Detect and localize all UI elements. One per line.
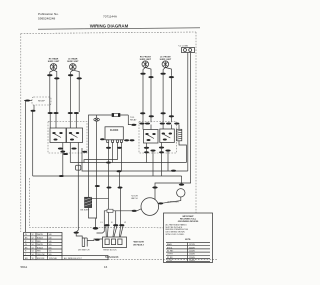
svg-text:2375W: 2375W: [189, 244, 195, 246]
svg-text:SURF. UNIT: SURF. UNIT: [160, 59, 172, 61]
terminal cabinet crossing: [93, 227, 99, 230]
surface unit LF label: [160, 56, 172, 60]
wire RF left down: [142, 75, 144, 123]
bus H2: [82, 148, 188, 171]
clock box: [105, 127, 123, 140]
wire S4 down to H4: [161, 143, 163, 177]
svg-text:CLOCK: CLOCK: [110, 129, 119, 132]
bottom dashed rule: [108, 259, 218, 261]
terminal row above right switches: [139, 122, 179, 124]
terminal receptacle left: [25, 100, 30, 102]
svg-text:140: 140: [49, 241, 52, 243]
wire clock pin3 down: [117, 142, 119, 159]
terminal RR right: [54, 77, 59, 79]
svg-text:ALL WIRE 600 VOLT: ALL WIRE 600 VOLT: [64, 257, 83, 260]
wire pair into block 1: [106, 226, 108, 237]
junction H1 mid: [106, 161, 111, 163]
svg-text:WHITE: WHITE: [37, 244, 44, 246]
bus H4: [33, 175, 182, 177]
svg-text:1250W: 1250W: [189, 257, 195, 259]
wire terminals into switch 2: [70, 114, 76, 128]
motor label: [131, 196, 138, 200]
terminals below left switches: [58, 147, 77, 155]
wire motor lead drop to block: [115, 211, 117, 225]
publication number text: [38, 12, 59, 21]
svg-text:W: W: [25, 244, 27, 246]
terminal LR right: [77, 77, 82, 79]
surface unit RF element: [142, 61, 149, 68]
svg-text:5995240248: 5995240248: [105, 256, 119, 259]
receptacle box left: [32, 97, 51, 105]
svg-text:DR SWITCH: DR SWITCH: [78, 249, 90, 251]
surface unit RR element: [50, 64, 57, 71]
terminal block: [103, 237, 127, 248]
svg-text:12: 12: [32, 234, 34, 236]
terminal RF left: [140, 73, 145, 75]
svg-text:BAKE: BAKE: [167, 243, 173, 246]
console dashed outline right: [139, 122, 177, 154]
wire door switch lead: [76, 234, 82, 238]
surface unit LF element: [162, 61, 169, 68]
svg-text:5995240248: 5995240248: [38, 17, 55, 21]
svg-text:SURF. UNIT: SURF. UNIT: [140, 59, 152, 61]
connector P1: [182, 48, 195, 53]
wire receptacle down: [33, 105, 35, 110]
svg-text:105: 105: [49, 244, 52, 246]
wire H3 junction down to block: [120, 171, 121, 225]
terminals above block: [104, 224, 124, 226]
svg-text:12: 12: [32, 238, 34, 240]
terminal motor top: [152, 186, 157, 188]
svg-text:1250W: 1250W: [189, 251, 195, 253]
junction H4 left: [59, 175, 64, 177]
wire LF left down: [162, 75, 164, 123]
terminal S1 drop: [60, 151, 65, 153]
svg-text:12: 12: [32, 241, 34, 243]
infinite switch S4: [160, 129, 175, 143]
terminal row mid right unit wires: [140, 112, 174, 117]
terminal under S2 right: [82, 151, 87, 153]
svg-text:LATCH: LATCH: [131, 197, 138, 200]
svg-text:*SEE NOTE: *SEE NOTE: [133, 242, 145, 244]
svg-text:BROIL: BROIL: [167, 247, 172, 249]
oven light lamp: [177, 189, 185, 197]
svg-text:RT FRT: RT FRT: [167, 251, 174, 253]
svg-text:RELAY: RELAY: [130, 118, 137, 121]
clock pin terminals: [106, 147, 122, 149]
wire LR left down: [70, 76, 72, 112]
header underline: [38, 28, 200, 29]
cabinet dashed border right: [195, 32, 197, 213]
svg-text:58A1: 58A1: [21, 265, 28, 269]
notice box table text: [167, 243, 195, 262]
inline fuse: [112, 113, 120, 116]
wire clock pin4 down: [120, 142, 122, 171]
wire element top to terminal: [178, 125, 180, 130]
svg-text:ON PAGE 2: ON PAGE 2: [133, 244, 145, 246]
wire resistor bottom jog: [89, 208, 97, 218]
junction H4 mid: [117, 170, 122, 172]
svg-text:SURF. UNIT: SURF. UNIT: [48, 61, 60, 63]
wire P1 right pin down: [155, 53, 191, 201]
terminal receptacle bottom: [31, 110, 36, 112]
inline connector on motor lead: [107, 209, 113, 212]
svg-text:SPECIAL: SPECIAL: [49, 257, 57, 260]
wire into receptacle: [24, 100, 32, 102]
terminal LF left: [160, 73, 165, 75]
wire LR right down: [78, 79, 80, 112]
surface unit RR label: [48, 58, 60, 63]
notice box: [164, 213, 213, 263]
clock side terminals: [100, 138, 134, 141]
svg-text:GROUNDING DEVICES: GROUNDING DEVICES: [178, 221, 199, 223]
svg-text:140: 140: [49, 238, 52, 240]
bus H0 clock feed: [84, 160, 118, 163]
wire S4 into top: [163, 125, 171, 130]
cabinet dashed border bottom: [29, 178, 163, 228]
wire S1 bottom down to bus: [62, 143, 64, 177]
cabinet dashed border top: [21, 32, 196, 34]
svg-text:BROWN: BROWN: [37, 258, 45, 260]
wire RR right down: [56, 79, 58, 112]
svg-text:1500W: 1500W: [189, 254, 195, 256]
svg-text:BLACK: BLACK: [37, 237, 44, 240]
inline connector on S2 wire: [76, 165, 81, 170]
terminal oven light top: [179, 184, 184, 186]
wire labels above block: [101, 222, 127, 224]
svg-text:105: 105: [49, 251, 52, 253]
wire lamp feeder corner: [89, 115, 129, 197]
notice box wire table: [166, 243, 210, 262]
terminal S3 drop: [144, 151, 149, 153]
wire S2 bottom left down: [69, 143, 71, 163]
color code bottom strip: [24, 256, 109, 260]
svg-text:RECEP: RECEP: [38, 100, 46, 102]
svg-text:1500W: 1500W: [189, 260, 195, 262]
infinite switch S1: [50, 128, 66, 143]
notice box heading: [178, 215, 199, 223]
wire receptacle left lead down: [24, 101, 26, 232]
svg-text:WITH DOOR CLOSED.: WITH DOOR CLOSED.: [166, 234, 185, 236]
wire clock pin2 down: [112, 142, 114, 162]
surface unit RF label: [140, 56, 152, 60]
surface unit LR label: [67, 58, 79, 63]
wire resistor to drop L: [92, 197, 109, 199]
wire RR left down: [49, 76, 51, 112]
svg-text:14: 14: [32, 244, 34, 246]
wire lamp bottom to motor: [162, 197, 181, 203]
see note text: [133, 242, 145, 247]
color code table text: [25, 234, 52, 256]
terminal RR left: [47, 74, 52, 76]
wire ground down: [96, 121, 97, 227]
wire H2 to oven light: [181, 176, 183, 183]
svg-text:WIRING DIAGRAM: WIRING DIAGRAM: [90, 24, 129, 29]
wire terminals into switch 1: [50, 114, 56, 128]
wire RR element to terminals: [50, 70, 54, 74]
door switch coil: [82, 238, 87, 247]
TOD label: [130, 117, 137, 122]
notice box body text: [166, 223, 189, 236]
terminals below right switches: [144, 146, 171, 151]
svg-text:105: 105: [49, 247, 52, 249]
svg-text:14: 14: [32, 247, 34, 249]
svg-text:W: W: [25, 234, 27, 236]
cabinet dashed border left: [20, 34, 22, 233]
svg-text:WHITE: WHITE: [37, 234, 44, 236]
wire LF element to terminals: [163, 68, 165, 73]
terminal motor left: [132, 210, 137, 212]
wire P1 left pin down: [187, 53, 189, 172]
terminal drop R: [118, 186, 123, 188]
clock pins: [107, 140, 123, 143]
wire S3 down to H1: [146, 143, 148, 163]
infinite switch S3: [144, 130, 159, 144]
svg-text:L2: L2: [124, 222, 126, 224]
svg-text:LT RR: LT RR: [167, 260, 173, 262]
wire RF right down: [150, 78, 152, 122]
infinite switch S2: [67, 128, 83, 143]
svg-text:RT RR: RT RR: [167, 257, 173, 259]
door switch terminal: [74, 232, 79, 234]
svg-text:140: 140: [49, 234, 52, 236]
console dashed outline left: [48, 122, 87, 154]
wire S3 into top: [143, 125, 151, 130]
terminal S4 drop: [159, 151, 164, 153]
broil element right: [177, 129, 182, 141]
wire door switch to block: [87, 239, 102, 241]
motor circle: [141, 198, 159, 216]
wire LR element to terminals: [71, 70, 73, 74]
svg-text:3400W: 3400W: [189, 247, 195, 249]
wire pair into block 3: [119, 226, 123, 237]
wire S2 bottom right down: [77, 143, 79, 232]
terminal motor right: [158, 202, 163, 204]
svg-text:*L1 CONN: *L1 CONN: [178, 45, 188, 47]
wire pair into block 2: [113, 226, 117, 237]
wire S3b down to H3: [152, 152, 154, 177]
svg-text:7071144A: 7071144A: [103, 15, 118, 19]
terminal on ground wire: [95, 185, 100, 187]
terminal LF right: [169, 76, 174, 78]
wire S4b down to H2: [167, 152, 169, 172]
terminal door switch right: [95, 239, 100, 241]
svg-text:BLACK: BLACK: [37, 246, 44, 249]
svg-text:TERM. BLOCK: TERM. BLOCK: [103, 250, 117, 252]
oven lamp resistor (hatched box): [85, 197, 92, 207]
wire fuse to TOD terminal: [128, 115, 131, 125]
surface unit LR element: [70, 64, 77, 71]
terminal LR left: [68, 74, 73, 76]
svg-text:16: 16: [104, 265, 108, 269]
wire LF right down: [170, 78, 172, 122]
wire element bottom to H1: [179, 141, 186, 163]
wire motor left lead: [97, 209, 142, 233]
svg-text:Publication No.: Publication No.: [38, 12, 59, 16]
bus H1: [70, 162, 186, 164]
terminal RF right: [148, 76, 153, 78]
wire receptacle bottom lead to H3: [32, 112, 34, 177]
svg-text:14: 14: [32, 251, 34, 253]
svg-text:L1: L1: [101, 222, 103, 224]
ground symbol: [94, 115, 100, 121]
terminal TOD: [131, 124, 136, 126]
svg-text:NOTE:: NOTE:: [185, 239, 191, 241]
color code table: [24, 233, 63, 256]
svg-text:SURF. UNIT: SURF. UNIT: [67, 61, 79, 63]
terminal row above left switches: [48, 112, 79, 114]
terminal drop L: [107, 186, 112, 188]
wire clock pin1 down: [108, 142, 110, 225]
wire RF element to terminals: [143, 68, 145, 73]
svg-text:18: 18: [32, 258, 34, 260]
svg-text:LT FRT: LT FRT: [167, 254, 174, 256]
